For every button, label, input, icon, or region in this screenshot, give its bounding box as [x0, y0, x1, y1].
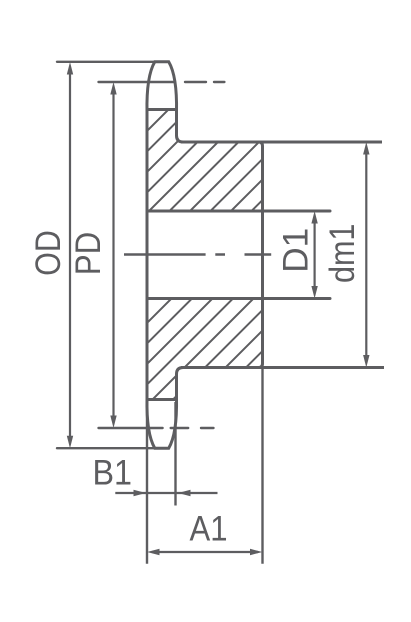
B1 right extension line — [174, 402, 176, 506]
B1 arrow right pointing left — [178, 490, 191, 496]
bore bottom line with D1 extension — [147, 297, 330, 300]
sprocket tooth top — [147, 62, 177, 112]
A1 arrow right — [250, 549, 263, 555]
A1 left extension line — [146, 400, 148, 564]
svg-text:B1: B1 — [92, 454, 132, 493]
A1 right extension line — [261, 368, 263, 564]
svg-text:A1: A1 — [190, 510, 228, 549]
OD arrow up — [67, 62, 73, 75]
center line — [124, 253, 271, 256]
svg-text:D1: D1 — [277, 228, 316, 273]
B1 dimension line — [115, 492, 217, 494]
bore top line with D1 extension — [147, 210, 330, 213]
svg-text:dm1: dm1 — [323, 224, 362, 283]
tooth root line bottom — [147, 398, 177, 401]
tooth root line top — [147, 108, 177, 111]
svg-text:PD: PD — [69, 232, 108, 276]
dm1 arrow down — [363, 355, 369, 368]
PD arrow up — [110, 82, 116, 95]
OD top extension line — [57, 61, 169, 63]
hatching top section — [57, 91, 372, 221]
dm1 dimension line — [365, 153, 367, 357]
OD bottom extension line — [57, 447, 169, 449]
D1 arrow up — [311, 211, 317, 224]
hub bottom line and dm1 bottom extension — [181, 366, 384, 369]
hatching bottom section — [60, 280, 375, 410]
PD dimension line — [112, 93, 114, 417]
svg-text:OD: OD — [29, 230, 68, 276]
PD arrow down — [110, 416, 116, 429]
PD bottom extension line with pitch dashes — [99, 427, 214, 429]
hub right edge — [259, 142, 263, 368]
plate left edge — [146, 110, 149, 400]
OD dimension line — [69, 73, 71, 437]
A1 dimension line — [152, 551, 258, 553]
D1 arrow down — [311, 286, 317, 299]
A1 arrow left — [147, 549, 160, 555]
OD arrow down — [67, 436, 73, 449]
plate right edge bottom with fillet from hub — [177, 368, 184, 400]
B1 arrow left pointing right — [134, 490, 147, 496]
sprocket tooth bottom — [147, 398, 177, 448]
plate right edge top with fillet to hub — [177, 110, 184, 143]
dm1 arrow up — [363, 142, 369, 155]
D1 dimension line — [314, 222, 316, 288]
hub top line and dm1 top extension — [181, 141, 382, 144]
PD top extension line with pitch dashes — [99, 81, 225, 83]
